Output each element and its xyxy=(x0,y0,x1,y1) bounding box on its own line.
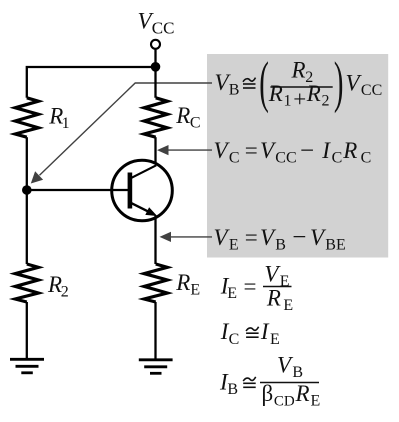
svg-text:E: E xyxy=(227,285,237,302)
node junction on VCC rail xyxy=(151,62,161,72)
svg-text:I: I xyxy=(321,138,331,163)
label RE xyxy=(175,270,200,299)
svg-text:−: − xyxy=(300,137,314,164)
svg-text:B: B xyxy=(292,364,303,381)
svg-text:E: E xyxy=(270,331,280,348)
formula V_C = VCC - IC RC xyxy=(214,137,372,166)
svg-text:C: C xyxy=(229,331,240,348)
transistor emitter lead with arrow xyxy=(132,203,158,216)
formula highlight box xyxy=(207,54,388,258)
svg-text:C: C xyxy=(190,114,201,131)
svg-text:R: R xyxy=(268,81,283,106)
svg-text:β: β xyxy=(262,381,274,406)
leader arrow from V_B formula to base node xyxy=(31,83,212,184)
wire R1 to base node xyxy=(26,137,28,190)
svg-text:R: R xyxy=(175,103,190,128)
svg-text:−: − xyxy=(292,224,306,251)
svg-text:1: 1 xyxy=(284,93,292,110)
wire base node to R2 xyxy=(26,190,28,264)
wire VCC rail to R1 branch xyxy=(27,67,156,98)
node base junction xyxy=(22,185,32,195)
resistor RC xyxy=(144,98,167,137)
ground under R2 xyxy=(10,359,44,373)
formula I_B = V_B/(beta_CD R_E) xyxy=(219,353,320,410)
svg-text:B: B xyxy=(229,82,240,99)
svg-text:CC: CC xyxy=(275,149,296,166)
svg-text:=: = xyxy=(245,225,258,250)
svg-text:2: 2 xyxy=(61,283,69,300)
svg-text:R: R xyxy=(342,138,357,163)
svg-text:2: 2 xyxy=(322,93,330,110)
svg-text:): ) xyxy=(334,51,344,114)
svg-text:=: = xyxy=(244,274,257,299)
transistor collector lead xyxy=(132,165,157,178)
leader arrow from V_E formula to emitter wire xyxy=(160,232,213,242)
formula V_B = (R2/(R1+R2))VCC xyxy=(215,51,383,114)
resistor R2 xyxy=(15,264,38,302)
svg-text:+: + xyxy=(293,86,306,111)
wire node to RC xyxy=(154,67,156,98)
svg-text:C: C xyxy=(361,149,372,166)
resistor RE xyxy=(144,264,167,302)
svg-text:E: E xyxy=(283,297,293,314)
formula V_E = V_B - V_BE xyxy=(214,224,346,253)
wire base node to transistor base xyxy=(27,189,128,191)
svg-text:R: R xyxy=(295,381,310,406)
transistor Q1 (NPN) body xyxy=(112,160,173,221)
svg-text:I: I xyxy=(260,319,270,344)
svg-text:E: E xyxy=(229,236,239,253)
svg-text:R: R xyxy=(47,272,62,297)
label R2 xyxy=(47,272,69,300)
svg-text:=: = xyxy=(245,138,258,163)
label RC xyxy=(175,103,200,132)
svg-text:C: C xyxy=(332,149,343,166)
svg-text:C: C xyxy=(229,149,240,166)
VCC supply terminal xyxy=(151,40,160,49)
svg-text:1: 1 xyxy=(62,115,70,132)
wire RC to collector xyxy=(154,137,156,166)
svg-text:E: E xyxy=(280,273,290,290)
svg-text:R: R xyxy=(291,58,306,83)
wire R2 to ground xyxy=(26,302,28,360)
wire emitter to RE xyxy=(154,216,156,265)
wire RE to ground xyxy=(154,302,156,360)
svg-text:B: B xyxy=(227,381,238,398)
resistor R1 xyxy=(15,98,38,137)
svg-text:(: ( xyxy=(259,51,269,114)
svg-text:CC: CC xyxy=(361,82,382,99)
transistor base bar xyxy=(128,173,133,209)
svg-text:E: E xyxy=(190,282,200,299)
svg-text:R: R xyxy=(266,286,281,311)
svg-text:E: E xyxy=(311,392,321,409)
wire VCC terminal to node xyxy=(154,49,156,67)
svg-text:CD: CD xyxy=(274,393,295,409)
label R1 xyxy=(48,103,69,132)
svg-text:R: R xyxy=(306,81,321,106)
ground under RE xyxy=(139,360,173,374)
svg-text:BE: BE xyxy=(325,236,345,253)
label VCC xyxy=(138,9,175,38)
leader arrow from V_C formula to collector wire xyxy=(157,145,212,155)
formula I_C = I_E xyxy=(220,319,280,348)
svg-text:R: R xyxy=(175,270,190,295)
svg-text:B: B xyxy=(275,236,286,253)
formula I_E = V_E/R_E xyxy=(220,262,293,315)
svg-text:CC: CC xyxy=(152,18,175,37)
